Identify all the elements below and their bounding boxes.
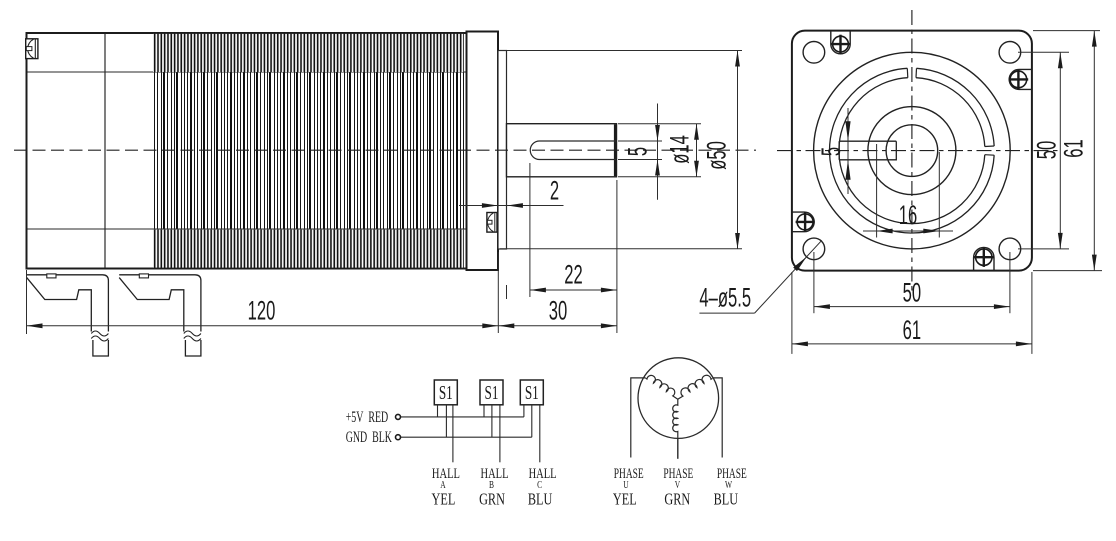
middle circle	[868, 107, 956, 195]
rear cap boundary line	[104, 34, 106, 268]
svg-text:5: 5	[622, 147, 652, 156]
svg-text:YEL: YEL	[613, 491, 637, 509]
svg-text:HALL: HALL	[481, 464, 509, 481]
key (front view)	[839, 141, 896, 160]
bottom screw	[976, 249, 992, 265]
S1 C pin to +5V	[523, 405, 525, 417]
vent ring gap caps	[985, 145, 994, 148]
svg-text:61: 61	[903, 315, 921, 345]
dimension 22 line	[530, 289, 617, 291]
shaft keyway slot	[530, 141, 616, 160]
S1 A output wire	[452, 405, 454, 463]
left screw	[797, 214, 813, 230]
vent ring circle r=73.0	[916, 78, 985, 147]
svg-text:HALL: HALL	[529, 464, 557, 481]
hall sensor wiring: +5V rail	[401, 416, 524, 418]
svg-text:5: 5	[816, 147, 846, 156]
mounting foot 1	[27, 274, 109, 356]
dimension 16 extension lines	[876, 144, 878, 238]
front flange square	[792, 31, 1032, 271]
dimension 16 line	[863, 230, 953, 232]
hall sensor S1 (B) box	[480, 380, 503, 405]
extension lines for horizontal 61	[791, 272, 793, 354]
svg-text:50: 50	[903, 277, 921, 307]
left screw notch	[792, 212, 814, 232]
shaft	[507, 124, 617, 177]
svg-text:GRN: GRN	[664, 491, 690, 509]
extension line: body left edge down	[26, 270, 28, 334]
phase W lead	[712, 378, 722, 458]
svg-text:PHASE: PHASE	[614, 465, 644, 482]
extension lines for diameter 50	[500, 50, 742, 52]
S1 B output wire	[499, 405, 501, 463]
extension line: boss right edge short	[506, 285, 508, 299]
svg-text:ø50: ø50	[701, 141, 731, 170]
motor winding circle	[638, 358, 719, 439]
svg-text:V: V	[675, 479, 681, 490]
svg-text:16: 16	[899, 200, 917, 230]
top screw notch	[831, 31, 850, 54]
shaft circle (front)	[886, 125, 938, 177]
svg-text:+5V RED: +5V RED	[346, 407, 389, 425]
S1 C output wire	[539, 405, 541, 463]
extension lines for horizontal 50	[813, 252, 815, 313]
svg-text:61: 61	[1058, 139, 1088, 157]
svg-text:ø14: ø14	[664, 135, 694, 164]
cooling fins (top band)	[153, 34, 464, 72]
svg-text:BLU: BLU	[714, 491, 739, 509]
svg-text:22: 22	[564, 259, 582, 289]
S1 C pin to GND	[531, 405, 533, 437]
dimension 5 (front key) line	[847, 108, 849, 194]
body inner top line	[28, 71, 467, 73]
cooling fins (middle)	[155, 73, 464, 229]
dimension 30 line	[498, 325, 617, 327]
extension lines for vertical 61	[1033, 30, 1100, 32]
body inner bottom line	[28, 228, 467, 230]
S1 A pin to GND	[445, 405, 447, 437]
svg-text:4–ø5.5: 4–ø5.5	[699, 283, 751, 313]
pilot boss (2mm)	[498, 51, 507, 250]
right screw	[1010, 71, 1027, 88]
winding coil U (upper-left)	[646, 375, 678, 399]
extension line: shaft end x=616.9	[616, 180, 618, 333]
front end cap	[467, 32, 499, 271]
svg-text:120: 120	[248, 295, 276, 325]
phase U lead	[631, 378, 646, 458]
svg-text:C: C	[537, 479, 542, 490]
dimension vertical 50 line	[1059, 52, 1061, 249]
hall sensor S1 (C) box	[520, 380, 543, 405]
bottom screw notch	[974, 247, 994, 270]
GND rail	[401, 436, 532, 438]
dimension 2 line	[459, 205, 564, 207]
svg-text:U: U	[623, 479, 629, 490]
leader underline for 4-d5.5	[699, 312, 754, 314]
svg-text:A: A	[440, 479, 446, 490]
dimension 5 line	[657, 104, 659, 200]
vent ring circle r=82.4	[917, 68, 995, 146]
svg-text:S1: S1	[485, 381, 499, 403]
small screw detail on rear cap top	[26, 39, 38, 59]
svg-text:W: W	[725, 479, 733, 490]
front view vertical centerline	[911, 10, 913, 291]
svg-text:50: 50	[1031, 141, 1061, 159]
svg-text:GND BLK: GND BLK	[346, 427, 393, 445]
side view centerline	[14, 149, 756, 151]
extension lines for key 5	[618, 140, 662, 142]
dimension 120 line	[27, 325, 499, 327]
svg-text:BLU: BLU	[528, 491, 553, 509]
small screw detail on end cap bottom	[487, 213, 497, 233]
dimension horizontal 61 line	[792, 343, 1032, 345]
front view horizontal centerline	[777, 150, 1060, 152]
svg-text:HALL: HALL	[432, 464, 460, 481]
svg-text:S1: S1	[525, 381, 539, 403]
outer end-bell circle	[814, 52, 1011, 249]
S1 B pin to GND	[491, 405, 493, 437]
mounting foot 2	[119, 274, 201, 356]
extension lines for diameter 14	[618, 123, 701, 125]
hall sensor S1 (A) box	[434, 380, 457, 405]
svg-text:YEL: YEL	[432, 491, 456, 509]
phase V lead	[677, 438, 679, 459]
svg-text:GRN: GRN	[479, 491, 505, 509]
svg-text:30: 30	[549, 295, 567, 325]
dimension diameter 14 line	[696, 124, 698, 177]
cooling fins (bottom band)	[153, 230, 464, 268]
winding coil V (down)	[673, 399, 678, 438]
extension line: keyway start x=529.9	[529, 163, 531, 297]
corner holes 4x diameter 5.5	[803, 42, 825, 64]
+5V terminal	[396, 414, 401, 419]
GND terminal	[396, 435, 401, 440]
S1 B pin to +5V	[483, 405, 485, 417]
extension line: motor face x=498.3	[497, 252, 499, 333]
svg-text:2: 2	[550, 175, 559, 205]
leader line to corner hole	[755, 240, 822, 313]
dimension diameter 50 line	[737, 51, 739, 250]
motor body outline (side view)	[27, 33, 470, 269]
shaft end edge (thick)	[614, 124, 617, 176]
right screw notch	[1009, 69, 1031, 89]
top screw	[833, 36, 849, 52]
dimension horizontal 50 line	[814, 306, 1010, 308]
extension lines for vertical 50	[1018, 51, 1069, 53]
svg-text:S1: S1	[439, 381, 453, 403]
winding coil W (upper-right)	[678, 375, 713, 399]
dimension vertical 61 line	[1093, 31, 1095, 271]
S1 A pin to +5V	[437, 405, 439, 417]
svg-text:B: B	[489, 479, 494, 490]
